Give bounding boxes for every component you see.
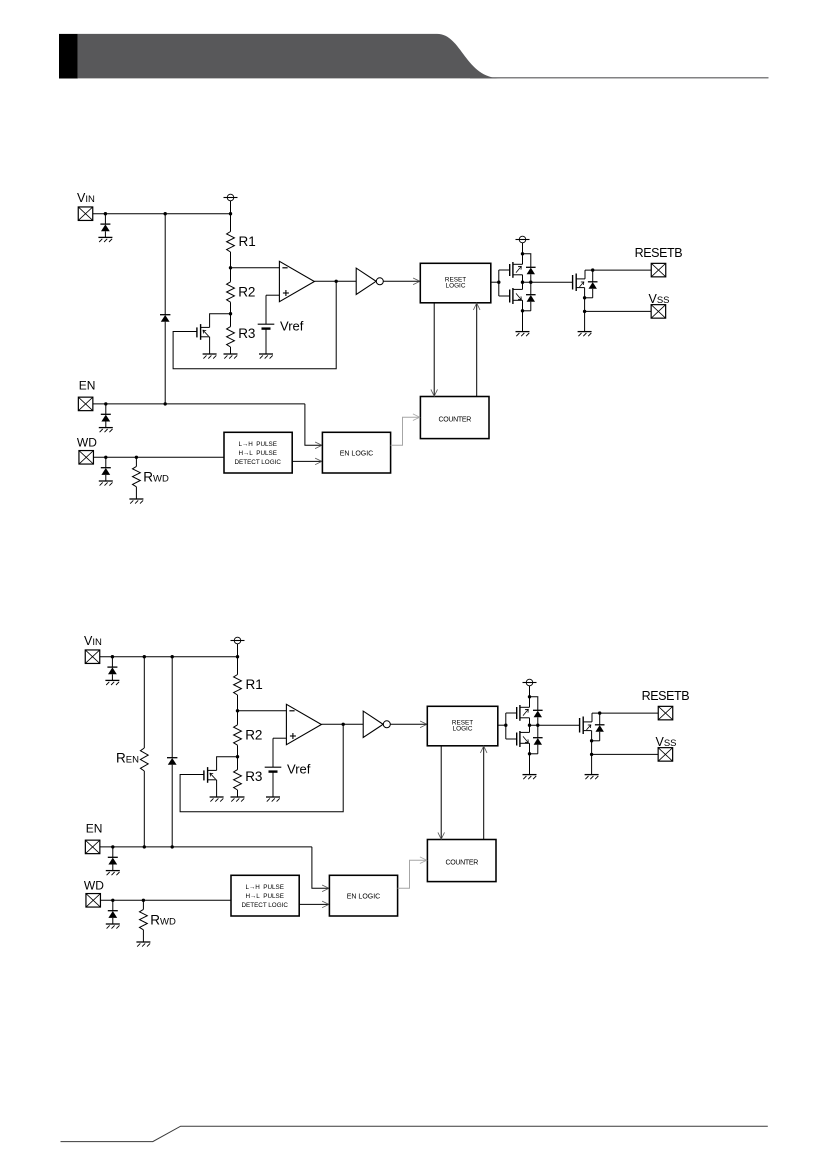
pad WD (diagram 1) bbox=[79, 451, 94, 465]
diode VIN ESD (diagram 1) bbox=[100, 214, 110, 238]
svg-text:DETECT LOGIC: DETECT LOGIC bbox=[241, 902, 288, 909]
resistor R3 (diagram 2) bbox=[234, 770, 242, 790]
wire R2-R3 (diagram 2) bbox=[237, 745, 239, 769]
junction Q1 diode out node (diagram 1) bbox=[529, 281, 532, 284]
junction sense node (diagram 1) bbox=[229, 266, 232, 269]
wire Vref to +input (diagram 2) bbox=[273, 737, 286, 739]
footer rule bbox=[61, 1126, 768, 1141]
wire VDD lead (diagram 2) bbox=[237, 644, 239, 657]
transistor Q1 (diagram 2) bbox=[517, 705, 530, 721]
power terminal VDD (diagram 1) bbox=[224, 194, 238, 201]
svg-text:VIN: VIN bbox=[77, 191, 95, 205]
block RESET LOGIC (diagram 1) bbox=[420, 263, 491, 303]
svg-text:Vref: Vref bbox=[287, 762, 311, 777]
junction EN branch node (diagram 1) bbox=[164, 402, 167, 405]
arrowhead into RESET LOGIC bottom (diagram 1) bbox=[473, 303, 480, 310]
header rule bbox=[470, 77, 769, 79]
junction EN ESD node (diagram 1) bbox=[104, 402, 107, 405]
pad EN (diagram 2) bbox=[85, 840, 100, 854]
wire R1 lead (diagram 1) bbox=[230, 214, 232, 232]
battery B1 (diagram 1) Vref bbox=[258, 324, 275, 328]
svg-text:COUNTER: COUNTER bbox=[445, 860, 478, 867]
svg-text:EN: EN bbox=[86, 822, 103, 836]
wire M1 gate feedback (diagram 1) bbox=[173, 281, 336, 368]
ground of R3 (diagram 1) bbox=[224, 354, 238, 359]
svg-text:RESETB: RESETB bbox=[635, 246, 683, 260]
diode Q3 body (diagram 1) bbox=[588, 270, 598, 298]
ground of EN ESD (diagram 1) bbox=[99, 428, 113, 433]
junction driver out node (diagram 1) bbox=[521, 281, 524, 284]
wire DETECT to EN LOGIC (diagram 2) bbox=[299, 903, 328, 905]
junction VIN REN node (diagram 2) bbox=[143, 655, 146, 658]
pad VSS (diagram 1) bbox=[651, 305, 666, 319]
wire EN pull rail lower (diagram 1) bbox=[164, 322, 166, 404]
svg-text:L→H PULSE: L→H PULSE bbox=[238, 441, 277, 448]
wire Q2 gate lead (diagram 1) bbox=[499, 295, 510, 297]
resistor REN (diagram 2) bbox=[140, 748, 148, 771]
arrowhead into COUNTER (diagram 2) bbox=[438, 832, 445, 839]
junction WD ESD node (diagram 2) bbox=[111, 899, 114, 902]
wire R2-R3 (diagram 1) bbox=[230, 302, 232, 326]
wire EN to EN LOGIC (diagram 2) bbox=[312, 847, 329, 888]
svg-text:RESETB: RESETB bbox=[642, 689, 690, 703]
wire Q1 source (diagram 1) bbox=[522, 275, 524, 282]
wire EN to EN LOGIC (diagram 1) bbox=[305, 404, 322, 445]
junction feedback node (diagram 1) bbox=[335, 280, 338, 283]
junction R1 top node (diagram 1) bbox=[229, 212, 232, 215]
wire Q1 drain to VDD (diagram 2) bbox=[529, 686, 531, 708]
transistor Q2 (diagram 2) bbox=[517, 731, 530, 747]
wire RESET to COUNTER (diagram 2) bbox=[440, 746, 442, 840]
wire Q1 body diode branch (diagram 1) bbox=[523, 253, 531, 255]
ground of Q2 (diagram 1) bbox=[516, 332, 530, 337]
wire Q1 source (diagram 2) bbox=[529, 718, 531, 725]
wire RWD ground lead (diagram 2) bbox=[142, 930, 144, 942]
junction Q2 source node (diagram 1) bbox=[521, 309, 524, 312]
svg-text:VSS: VSS bbox=[649, 292, 670, 306]
wire Q3 drain (diagram 2) bbox=[591, 713, 593, 722]
resistor RWD (diagram 2) bbox=[140, 909, 148, 929]
svg-text:EN LOGIC: EN LOGIC bbox=[347, 893, 380, 900]
wire VIN rail (diagram 1) bbox=[93, 213, 231, 215]
junction Q3 diode top node (diagram 1) bbox=[591, 268, 594, 271]
svg-text:VSS: VSS bbox=[656, 735, 677, 749]
svg-text:R1: R1 bbox=[239, 234, 256, 249]
ground of M1 (diagram 2) bbox=[210, 797, 224, 802]
wire RWD top lead (diagram 1) bbox=[135, 457, 137, 466]
ground of RWD (diagram 1) bbox=[129, 499, 143, 504]
diode Q2 body (diagram 1) bbox=[526, 282, 536, 311]
ground of M1 (diagram 1) bbox=[203, 354, 217, 359]
diode Q2 body (diagram 2) bbox=[533, 725, 543, 754]
arrowhead into COUNTER left (diagram 1) bbox=[413, 414, 420, 421]
pad RESETB (diagram 2) bbox=[658, 706, 673, 720]
wire Q1 gate lead (diagram 2) bbox=[506, 712, 517, 714]
block EN LOGIC (diagram 1) bbox=[322, 432, 390, 473]
junction VDD diode node (diagram 2) bbox=[528, 695, 531, 698]
junction EN ESD node (diagram 2) bbox=[111, 845, 114, 848]
wire Vref top lead (diagram 1) bbox=[265, 295, 267, 324]
block DETECT LOGIC (diagram 2) bbox=[231, 875, 299, 916]
transistor Q2 (diagram 1) bbox=[510, 288, 523, 304]
wire R1-R2 (diagram 1) bbox=[230, 252, 232, 282]
junction RWD node (diagram 2) bbox=[142, 899, 145, 902]
svg-text:WD: WD bbox=[77, 436, 97, 450]
wire RWD ground lead (diagram 1) bbox=[135, 487, 137, 499]
wire sense to op-amp (diagram 2) bbox=[238, 710, 287, 712]
wire inverter output (diagram 1) bbox=[383, 280, 419, 282]
junction VSS node (diagram 2) bbox=[590, 753, 593, 756]
ground of Vref (diagram 1) bbox=[259, 354, 273, 359]
transistor Q3 (diagram 2) bbox=[580, 717, 592, 735]
diode EN ESD (diagram 2) bbox=[108, 847, 118, 871]
wire EN pull rail upper (diagram 1) bbox=[164, 214, 166, 315]
wire driver gate trunk (diagram 1) bbox=[498, 270, 500, 296]
wire M1 drain (diagram 1) bbox=[210, 314, 231, 328]
transistor M1 (diagram 2) bbox=[204, 767, 217, 783]
pad VSS (diagram 2) bbox=[658, 748, 673, 762]
wire Vref ground lead (diagram 1) bbox=[265, 329, 267, 354]
wire Q2 gate lead (diagram 2) bbox=[506, 738, 517, 740]
ground of Q2 (diagram 2) bbox=[523, 775, 537, 780]
wire driver out to Q3 gate (diagram 1) bbox=[523, 281, 573, 283]
header black tab bbox=[59, 34, 78, 79]
ground of VIN ESD (diagram 2) bbox=[105, 680, 119, 685]
svg-text:R2: R2 bbox=[238, 284, 255, 299]
diode Q3 body (diagram 2) bbox=[595, 713, 605, 741]
resistor R2 (diagram 1) bbox=[227, 282, 235, 302]
svg-text:Vref: Vref bbox=[280, 319, 304, 334]
wire RWD top lead (diagram 2) bbox=[142, 900, 144, 909]
wire inverter output (diagram 2) bbox=[390, 723, 426, 725]
header gray banner bbox=[78, 34, 501, 78]
ground of WD ESD (diagram 1) bbox=[99, 481, 113, 486]
svg-text:R2: R2 bbox=[245, 727, 262, 742]
wire Q2 drain (diagram 1) bbox=[522, 282, 524, 289]
svg-text:L→H PULSE: L→H PULSE bbox=[245, 884, 284, 891]
transistor Q3 (diagram 1) bbox=[573, 274, 585, 292]
block COUNTER (diagram 1) bbox=[420, 397, 489, 439]
arrowhead into COUNTER left (diagram 2) bbox=[420, 857, 427, 864]
junction R1 top node (diagram 2) bbox=[236, 655, 239, 658]
wire EN pull rail lower (diagram 2) bbox=[171, 765, 173, 847]
wire VIN rail (diagram 2) bbox=[100, 656, 238, 658]
junction driver gate node (diagram 2) bbox=[504, 724, 507, 727]
diode EN rail (diagram 1) bbox=[160, 315, 170, 322]
junction Q3 diode top node (diagram 2) bbox=[598, 711, 601, 714]
wire Q1 drain to VDD (diagram 1) bbox=[522, 243, 524, 264]
junction sense node (diagram 2) bbox=[236, 709, 239, 712]
wire RESET LOGIC output (diagram 1) bbox=[491, 281, 499, 283]
junction VIN branch node (diagram 2) bbox=[171, 655, 174, 658]
wire RESET to COUNTER (diagram 1) bbox=[433, 303, 435, 397]
arrowhead into EN LOGIC 1 (diagram 1) bbox=[315, 442, 322, 449]
junction VIN ESD node (diagram 1) bbox=[104, 212, 107, 215]
pad VIN (diagram 2) bbox=[85, 650, 100, 664]
diode VIN ESD (diagram 2) bbox=[107, 657, 117, 681]
pad EN (diagram 1) bbox=[78, 397, 93, 411]
resistor R1 (diagram 2) bbox=[234, 675, 242, 696]
arrowhead into EN LOGIC 1 (diagram 2) bbox=[322, 885, 329, 892]
wire DETECT to EN LOGIC (diagram 1) bbox=[292, 460, 321, 462]
wire driver out to Q3 gate (diagram 2) bbox=[530, 724, 580, 726]
block COUNTER (diagram 2) bbox=[427, 840, 496, 882]
junction VIN ESD node (diagram 2) bbox=[111, 655, 114, 658]
wire comparator output (diagram 2) bbox=[321, 723, 363, 725]
wire EN LOGIC to COUNTER (diagram 2) bbox=[398, 860, 427, 888]
diode WD ESD (diagram 1) bbox=[101, 457, 111, 481]
junction VDD diode node (diagram 1) bbox=[521, 252, 524, 255]
wire R1-R2 (diagram 2) bbox=[237, 695, 239, 725]
ground of RWD (diagram 2) bbox=[136, 942, 150, 947]
wire driver gate trunk (diagram 2) bbox=[505, 713, 507, 739]
wire REN bottom (diagram 2) bbox=[143, 771, 145, 847]
wire Q3 body return (diagram 2) bbox=[592, 740, 600, 742]
wire comparator output (diagram 1) bbox=[314, 280, 356, 282]
wire Q2 body return (diagram 1) bbox=[523, 310, 531, 312]
wire Q3 drain (diagram 1) bbox=[584, 270, 586, 279]
ground of EN ESD (diagram 2) bbox=[106, 871, 120, 876]
junction driver out node (diagram 2) bbox=[528, 724, 531, 727]
arrowhead into EN LOGIC 2 (diagram 1) bbox=[315, 458, 322, 465]
wire COUNTER to RESET (diagram 1) bbox=[476, 303, 478, 397]
ground of Q3 (diagram 2) bbox=[585, 775, 599, 780]
wire COUNTER to RESET (diagram 2) bbox=[483, 746, 485, 840]
diode EN ESD (diagram 1) bbox=[101, 404, 111, 428]
op-amp U1 (diagram 1) bbox=[279, 261, 314, 301]
block EN LOGIC (diagram 2) bbox=[329, 875, 397, 916]
diode Q1 body (diagram 1) bbox=[526, 254, 536, 282]
wire Vref top lead (diagram 2) bbox=[272, 738, 274, 767]
inverter U2 (diagram 1) bbox=[356, 268, 383, 294]
diode Q1 body (diagram 2) bbox=[533, 697, 543, 725]
wire VSS wire (diagram 2) bbox=[592, 753, 659, 755]
svg-text:R1: R1 bbox=[246, 677, 263, 692]
wire R3 ground lead (diagram 1) bbox=[230, 347, 232, 354]
junction Q2 source node (diagram 2) bbox=[528, 752, 531, 755]
wire EN rail (diagram 1) bbox=[93, 403, 305, 405]
junction Q3 source node (diagram 1) bbox=[583, 296, 586, 299]
pad RESETB (diagram 1) bbox=[651, 263, 666, 277]
svg-text:R3: R3 bbox=[245, 769, 262, 784]
svg-text:COUNTER: COUNTER bbox=[438, 417, 471, 424]
junction R3 top node (diagram 1) bbox=[229, 312, 232, 315]
junction Q3 source node (diagram 2) bbox=[590, 739, 593, 742]
wire Q1 gate lead (diagram 1) bbox=[499, 269, 510, 271]
wire RESET LOGIC output (diagram 2) bbox=[498, 724, 506, 726]
svg-text:LOGIC: LOGIC bbox=[446, 283, 466, 290]
svg-text:H→L PULSE: H→L PULSE bbox=[245, 893, 284, 900]
block DETECT LOGIC (diagram 1) bbox=[224, 432, 292, 473]
wire Q2 body return (diagram 2) bbox=[530, 753, 538, 755]
wire Q2 drain (diagram 2) bbox=[529, 725, 531, 732]
wire WD rail (diagram 2) bbox=[100, 899, 231, 901]
diode WD ESD (diagram 2) bbox=[108, 900, 118, 924]
transistor Q1 (diagram 1) bbox=[510, 262, 523, 278]
junction RWD node (diagram 1) bbox=[135, 456, 138, 459]
arrowhead into RESET LOGIC (diagram 2) bbox=[420, 721, 427, 728]
junction Q1 diode out node (diagram 2) bbox=[536, 724, 539, 727]
junction feedback node (diagram 2) bbox=[342, 723, 345, 726]
wire EN rail (diagram 2) bbox=[100, 846, 312, 848]
wire Q2 source (diagram 1) bbox=[522, 300, 524, 331]
wire EN pull rail upper (diagram 2) bbox=[171, 657, 173, 758]
resistor R3 (diagram 1) bbox=[227, 327, 235, 347]
wire R1 lead (diagram 2) bbox=[237, 657, 239, 675]
arrowhead into EN LOGIC 2 (diagram 2) bbox=[322, 901, 329, 908]
resistor RWD (diagram 1) bbox=[133, 466, 141, 486]
pad WD (diagram 2) bbox=[86, 894, 101, 908]
svg-text:H→L PULSE: H→L PULSE bbox=[238, 450, 277, 457]
wire Vref to +input (diagram 1) bbox=[266, 294, 279, 296]
ground of R3 (diagram 2) bbox=[231, 797, 245, 802]
power terminal VDD2 (diagram 2) bbox=[523, 679, 537, 686]
wire RESETB wire (diagram 2) bbox=[592, 712, 658, 714]
power terminal VDD (diagram 2) bbox=[231, 637, 245, 644]
ground of WD ESD (diagram 2) bbox=[106, 924, 120, 929]
wire R3 ground lead (diagram 2) bbox=[237, 790, 239, 797]
svg-text:R3: R3 bbox=[238, 326, 255, 341]
diode EN rail (diagram 2) bbox=[167, 758, 177, 765]
junction EN branch node (diagram 2) bbox=[171, 845, 174, 848]
arrowhead into RESET LOGIC bottom (diagram 2) bbox=[480, 746, 487, 753]
wire REN top (diagram 2) bbox=[143, 657, 145, 748]
arrowhead into COUNTER (diagram 1) bbox=[431, 389, 438, 396]
svg-text:DETECT LOGIC: DETECT LOGIC bbox=[234, 459, 281, 466]
wire RESETB wire (diagram 1) bbox=[585, 269, 651, 271]
ground of Vref (diagram 2) bbox=[266, 797, 280, 802]
block RESET LOGIC (diagram 2) bbox=[427, 706, 498, 746]
svg-text:EN LOGIC: EN LOGIC bbox=[340, 450, 373, 457]
junction EN REN node (diagram 2) bbox=[143, 845, 146, 848]
op-amp U1 (diagram 2) bbox=[286, 704, 321, 744]
wire Q3 source (diagram 2) bbox=[591, 731, 593, 775]
power terminal VDD2 (diagram 1) bbox=[516, 236, 530, 243]
wire EN LOGIC to COUNTER (diagram 1) bbox=[391, 417, 420, 445]
junction VIN branch node (diagram 1) bbox=[164, 212, 167, 215]
wire sense to op-amp (diagram 1) bbox=[231, 267, 280, 269]
inverter U2 (diagram 2) bbox=[363, 711, 390, 737]
junction VSS node (diagram 1) bbox=[583, 310, 586, 313]
pad VIN (diagram 1) bbox=[78, 207, 93, 221]
resistor R2 (diagram 2) bbox=[234, 725, 242, 745]
arrowhead into RESET LOGIC (diagram 1) bbox=[413, 278, 420, 285]
ground of Q3 (diagram 1) bbox=[578, 332, 592, 337]
junction driver gate node (diagram 1) bbox=[497, 281, 500, 284]
svg-text:WD: WD bbox=[84, 879, 104, 893]
wire Q1 body diode branch (diagram 2) bbox=[530, 696, 538, 698]
wire Q3 body return (diagram 1) bbox=[585, 297, 593, 299]
junction WD ESD node (diagram 1) bbox=[104, 456, 107, 459]
wire Q2 source (diagram 2) bbox=[529, 743, 531, 774]
junction R3 top node (diagram 2) bbox=[236, 755, 239, 758]
wire WD rail (diagram 1) bbox=[93, 456, 224, 458]
wire M1 gate feedback (diagram 2) bbox=[180, 724, 343, 811]
wire Vref ground lead (diagram 2) bbox=[272, 772, 274, 797]
wire M1 source (diagram 2) bbox=[216, 780, 218, 797]
svg-text:VIN: VIN bbox=[84, 634, 102, 648]
svg-text:LOGIC: LOGIC bbox=[453, 726, 473, 733]
wire VDD lead (diagram 1) bbox=[230, 201, 232, 214]
battery B1 (diagram 2) Vref bbox=[265, 767, 282, 771]
wire VSS wire (diagram 1) bbox=[585, 310, 652, 312]
wire M1 source (diagram 1) bbox=[209, 337, 211, 354]
svg-text:EN: EN bbox=[79, 379, 96, 393]
transistor M1 (diagram 1) bbox=[197, 324, 210, 340]
resistor R1 (diagram 1) bbox=[227, 232, 235, 253]
ground of VIN ESD (diagram 1) bbox=[98, 237, 112, 242]
wire Q3 source (diagram 1) bbox=[584, 288, 586, 332]
wire M1 drain (diagram 2) bbox=[217, 757, 238, 771]
